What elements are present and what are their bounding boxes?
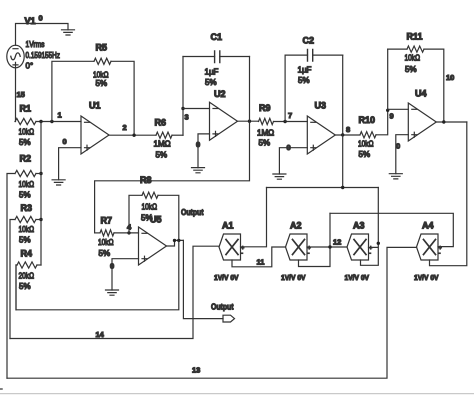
svg-text:1V/V 0V: 1V/V 0V xyxy=(281,273,306,282)
svg-text:10kΩ: 10kΩ xyxy=(19,225,35,234)
resistor R1 xyxy=(15,118,36,124)
C2 left drop xyxy=(284,55,286,121)
U3 output wire (node 8) xyxy=(335,134,360,136)
multiplier A3 xyxy=(347,234,369,260)
drop to A3 right / A3 bottom loop xyxy=(361,188,379,266)
ground top (net 0) xyxy=(62,30,75,35)
ground U1 xyxy=(52,180,65,185)
wire node12 top to A4 right input xyxy=(330,213,453,246)
U4 output drop to A4 bottom xyxy=(430,122,467,266)
R1 labels xyxy=(19,104,35,148)
svg-text:A2: A2 xyxy=(290,221,302,231)
U4 output wire xyxy=(436,121,467,123)
svg-text:10kΩ: 10kΩ xyxy=(98,238,114,247)
R11 labels xyxy=(405,32,423,75)
svg-text:10: 10 xyxy=(446,73,454,82)
svg-text:0°: 0° xyxy=(26,62,34,71)
svg-text:13: 13 xyxy=(192,366,200,375)
A2 bottom output to node 12 riser xyxy=(299,213,331,266)
wire R7 to U5 inverting (node 4) xyxy=(114,232,139,234)
op-amp U3 xyxy=(307,116,335,154)
svg-text:R1: R1 xyxy=(20,104,32,114)
resistor R9 xyxy=(259,118,274,124)
resistor R5 xyxy=(94,58,111,64)
svg-text:15: 15 xyxy=(17,90,25,99)
svg-text:20kΩ: 20kΩ xyxy=(19,272,35,281)
R3 labels xyxy=(19,203,35,245)
junction node 1 xyxy=(39,120,42,123)
svg-text:1V/V 0V: 1V/V 0V xyxy=(345,273,370,282)
wire R10 to node 9 riser xyxy=(376,49,388,135)
V1 values xyxy=(26,40,61,71)
svg-text:5%: 5% xyxy=(96,79,108,88)
R9 labels xyxy=(257,103,274,148)
svg-text:10kΩ: 10kΩ xyxy=(19,128,35,137)
svg-text:R10: R10 xyxy=(359,115,376,125)
svg-text:1MΩ: 1MΩ xyxy=(257,129,274,138)
svg-text:1MΩ: 1MΩ xyxy=(154,140,171,149)
R2 left wire down (to wire 13) xyxy=(7,174,15,379)
wire R8 right down to U5 output xyxy=(158,195,179,240)
wire R9 to U3 (node 7) xyxy=(274,121,308,123)
svg-text:A4: A4 xyxy=(422,221,434,231)
R8 left riser xyxy=(129,195,142,233)
svg-text:Output: Output xyxy=(211,302,234,312)
svg-text:1V/V 0V: 1V/V 0V xyxy=(414,273,439,282)
C2 right drop to U3 output xyxy=(342,55,344,135)
wire R6 to node 3 riser xyxy=(172,134,183,136)
svg-text:1V/V 0V: 1V/V 0V xyxy=(214,273,239,282)
wire R5 right down to U1 output xyxy=(111,61,134,135)
op-amp U1 xyxy=(81,116,109,154)
svg-text:10kΩ: 10kΩ xyxy=(142,203,158,212)
svg-text:0: 0 xyxy=(110,262,114,271)
svg-text:2: 2 xyxy=(123,123,127,132)
left edge tick xyxy=(0,388,2,390)
svg-text:0: 0 xyxy=(63,137,67,146)
wire node1 up to R5 xyxy=(52,61,94,121)
U3 + input wire to ground xyxy=(279,148,307,174)
svg-text:5%: 5% xyxy=(156,151,168,160)
svg-text:0: 0 xyxy=(196,140,200,149)
svg-text:R9: R9 xyxy=(259,103,271,113)
R6 labels xyxy=(154,118,171,160)
U5 + input wire to ground xyxy=(112,259,139,290)
wire V1 to R1 xyxy=(15,68,17,122)
svg-text:5%: 5% xyxy=(405,65,417,74)
svg-text:R8: R8 xyxy=(140,175,152,185)
U2 output wire xyxy=(238,120,259,122)
svg-text:R5: R5 xyxy=(96,43,108,53)
svg-text:U4: U4 xyxy=(415,89,427,99)
svg-text:1µF: 1µF xyxy=(205,68,219,77)
svg-text:A3: A3 xyxy=(353,221,365,231)
ground U3 xyxy=(273,174,286,179)
wire U5 out down to R4 wire xyxy=(16,240,179,309)
resistor R7 xyxy=(95,232,100,234)
svg-text:8: 8 xyxy=(346,125,350,134)
capacitor C2 xyxy=(285,50,343,62)
R4 labels xyxy=(19,249,35,292)
svg-text:11: 11 xyxy=(257,258,265,267)
resistor R4 xyxy=(17,262,37,268)
svg-text:R11: R11 xyxy=(407,32,423,42)
svg-text:5%: 5% xyxy=(259,139,271,148)
output connector tag xyxy=(223,315,235,322)
source V1 xyxy=(7,45,24,68)
resistor R3 xyxy=(15,216,36,222)
U1 + input wire to ground xyxy=(59,148,81,180)
ground U4 xyxy=(389,174,402,179)
svg-text:R4: R4 xyxy=(21,249,33,259)
wire 13 xyxy=(7,247,417,378)
svg-text:0: 0 xyxy=(39,14,43,23)
U5 output wires xyxy=(167,240,184,246)
wire 11 : A1 bottom to A2 left xyxy=(232,247,286,267)
svg-text:1Vrms: 1Vrms xyxy=(26,40,45,49)
U2 inverting input wire xyxy=(183,108,210,110)
svg-text:1: 1 xyxy=(58,111,62,120)
svg-text:5%: 5% xyxy=(19,191,31,200)
svg-text:C2: C2 xyxy=(303,36,315,46)
drop to A1 right input xyxy=(241,188,267,247)
ground U5 xyxy=(106,290,119,295)
op-amp U4 xyxy=(408,103,436,141)
op-amp U2 xyxy=(210,102,238,140)
svg-text:U5: U5 xyxy=(150,215,162,225)
multiplier A1 xyxy=(219,234,241,260)
R5 labels xyxy=(93,43,109,89)
vertical junction column xyxy=(40,122,42,266)
svg-text:5%: 5% xyxy=(298,76,310,85)
svg-text:3: 3 xyxy=(185,113,189,122)
svg-text:U3: U3 xyxy=(315,101,327,111)
R7 labels xyxy=(98,216,114,259)
R4 left wire down riser xyxy=(16,265,17,310)
node 3 vertical (C1 left / U2 inverting) xyxy=(182,57,184,136)
C1 right drop / U2 output down wire xyxy=(95,57,250,233)
svg-text:14: 14 xyxy=(96,330,105,339)
svg-text:0.159155Hz: 0.159155Hz xyxy=(26,51,61,60)
U4 + input wire to ground xyxy=(396,135,409,174)
svg-text:10kΩ: 10kΩ xyxy=(358,140,374,149)
svg-text:C1: C1 xyxy=(211,32,223,42)
svg-text:R6: R6 xyxy=(155,118,167,128)
R2 labels xyxy=(19,154,35,200)
C2 labels xyxy=(298,36,315,86)
resistor R6 xyxy=(156,132,172,138)
svg-text:R3: R3 xyxy=(21,203,33,213)
capacitor C1 xyxy=(183,51,250,63)
svg-text:V1: V1 xyxy=(25,16,36,26)
resistor R2 xyxy=(15,170,36,176)
svg-text:A1: A1 xyxy=(222,221,234,231)
svg-text:0: 0 xyxy=(396,142,400,151)
R3 left wire down (to wire 14) xyxy=(10,220,15,339)
svg-text:U1: U1 xyxy=(89,101,101,111)
svg-text:5%: 5% xyxy=(205,78,217,87)
U1 output wire (node 2) xyxy=(109,134,156,136)
svg-text:1µF: 1µF xyxy=(298,66,312,75)
svg-text:Output: Output xyxy=(181,207,204,217)
svg-text:10kΩ: 10kΩ xyxy=(405,54,421,63)
svg-text:R7: R7 xyxy=(101,216,113,226)
svg-text:0: 0 xyxy=(287,143,291,152)
wire 14 xyxy=(10,246,219,338)
resistor R10 xyxy=(360,132,376,138)
multiplier A4 xyxy=(417,234,439,260)
svg-text:10kΩ: 10kΩ xyxy=(19,180,35,189)
R10 labels xyxy=(358,115,375,159)
multiplier A2 xyxy=(286,234,308,260)
svg-text:7: 7 xyxy=(288,111,292,120)
wire R11 right down to U4 output xyxy=(424,49,444,122)
svg-text:U2: U2 xyxy=(214,89,226,99)
ground U2 xyxy=(192,168,205,173)
op-amp U5 xyxy=(139,227,167,265)
svg-text:R2: R2 xyxy=(20,154,32,164)
wire R1 to U1 inverting input (node 1) xyxy=(36,121,81,123)
bottom window edge line xyxy=(0,393,474,395)
wire A2 right to A3 left (node 12) xyxy=(307,246,347,248)
svg-text:5%: 5% xyxy=(19,236,31,245)
U4 inverting input wire xyxy=(388,108,409,110)
wire U3 output down xyxy=(342,135,344,188)
wire V1 top to ground xyxy=(16,24,69,46)
wire U5 out to output connector xyxy=(183,240,223,318)
U2 + input wire to ground xyxy=(198,134,210,168)
horizontal feed wire y187 xyxy=(267,187,379,189)
svg-text:5%: 5% xyxy=(19,138,31,147)
svg-text:5%: 5% xyxy=(19,282,31,291)
resistor R11 xyxy=(388,48,407,50)
R8 labels xyxy=(140,175,157,223)
svg-text:9: 9 xyxy=(390,112,394,121)
C1 labels xyxy=(205,32,223,87)
svg-text:5%: 5% xyxy=(359,150,371,159)
resistor R8 xyxy=(142,192,158,198)
svg-text:5%: 5% xyxy=(99,249,111,258)
svg-text:12: 12 xyxy=(333,238,341,247)
